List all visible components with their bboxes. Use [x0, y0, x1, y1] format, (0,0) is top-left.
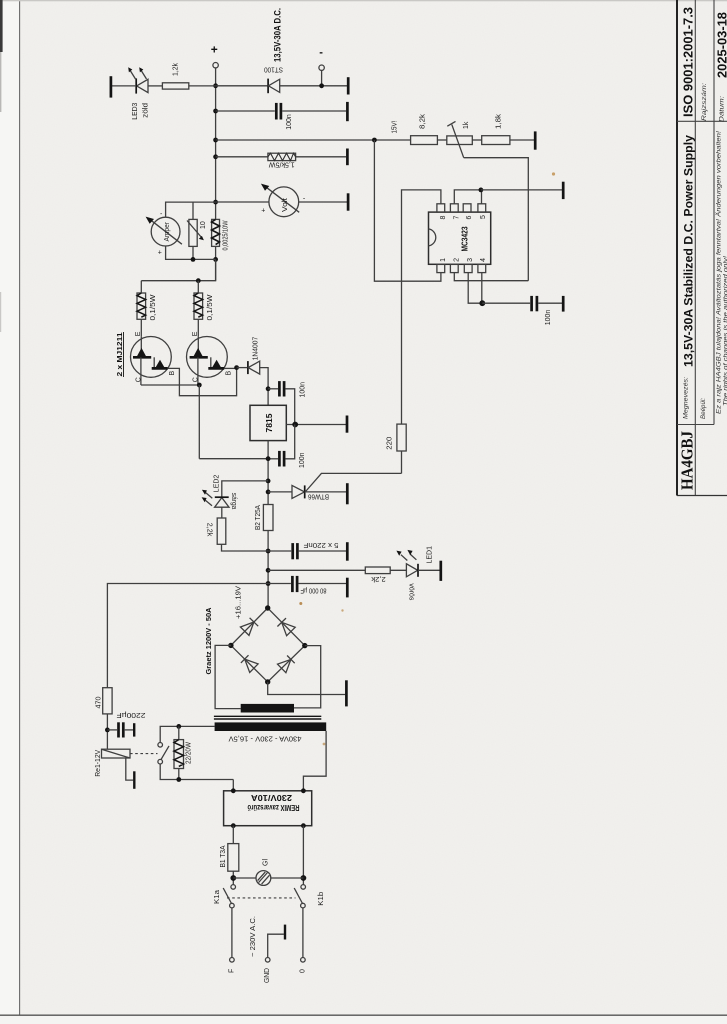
wire contact bottom	[160, 764, 233, 780]
resistor 1,8k	[482, 136, 510, 145]
svg-text:Amper: Amper	[164, 221, 171, 241]
terminal bar 1,8k	[534, 131, 537, 149]
node 80000u branch	[266, 581, 271, 586]
svg-text:Volt: Volt	[282, 198, 289, 212]
wire primary right to REMIX	[303, 731, 326, 791]
svg-text:zöld: zöld	[142, 103, 149, 118]
node on rail at meter bottom	[213, 257, 218, 262]
svg-text:230V/10A: 230V/10A	[251, 793, 292, 802]
capacitor 100n (7815 in)	[268, 388, 278, 390]
svg-text:8: 8	[440, 216, 447, 220]
title block inner vertical 1	[694, 0, 696, 496]
svg-text:1,5k/5W: 1,5k/5W	[268, 160, 294, 167]
wire primary left to soft-start	[179, 725, 215, 727]
wire rheostat top	[192, 202, 194, 219]
wire node to cap	[268, 583, 291, 585]
svg-text:2,2k: 2,2k	[371, 575, 386, 582]
wire cap to bar	[282, 110, 346, 112]
LED1 diode	[406, 564, 417, 577]
wire bridge bottom to 0V bar	[268, 682, 346, 695]
title block separator row1	[677, 120, 727, 122]
svg-text:K1b: K1b	[318, 892, 325, 906]
terminal bar 100n	[346, 102, 349, 121]
wire cap to bar	[298, 583, 346, 585]
terminal bar 7815 out	[346, 416, 349, 433]
svg-text:Graetz 1200V - 50A: Graetz 1200V - 50A	[204, 607, 213, 675]
terminal F	[230, 958, 235, 963]
wire bridge right to secondary	[294, 646, 321, 708]
terminal 0	[301, 958, 306, 963]
transformer core	[214, 715, 321, 717]
node 22/20W bottom	[176, 777, 181, 782]
wire rail to voltmeter	[216, 201, 269, 203]
svg-text:K1a: K1a	[214, 890, 221, 904]
node bridge bottom	[265, 679, 270, 684]
pin 1	[437, 264, 445, 272]
node bridge right	[302, 643, 307, 648]
wire pin7 up	[454, 190, 481, 204]
svg-text:HA4GBJ: HA4GBJ	[678, 431, 697, 490]
svg-text:5: 5	[480, 215, 487, 219]
potentiometer 1k	[447, 136, 473, 145]
bridge diode bottom-right	[278, 659, 291, 672]
voltmeter V1	[269, 187, 299, 217]
svg-text:vörös: vörös	[407, 583, 414, 600]
LED3 diode	[137, 79, 148, 92]
node soft-start top	[176, 724, 181, 729]
wire node to 100n	[482, 302, 530, 304]
bridge diode top-right	[282, 622, 296, 635]
node BTW66 branch	[266, 490, 271, 495]
terminal bar LED3	[110, 76, 113, 97]
wire rail to emitter resistors	[141, 259, 215, 280]
scan top edge	[0, 0, 727, 1]
wire 7815 gnd down	[267, 441, 269, 505]
title block left border	[676, 0, 678, 496]
relay coil Re1-12V	[102, 749, 131, 758]
svg-text:Beépül:: Beépül:	[700, 398, 707, 419]
node on rail at 100n branch	[213, 109, 218, 114]
pin 5	[478, 204, 486, 212]
svg-text:~ 230V A.C.: ~ 230V A.C.	[250, 916, 257, 957]
svg-text:+16...19V: +16...19V	[235, 586, 242, 619]
wire pin5 up	[481, 190, 483, 204]
svg-text:470: 470	[95, 696, 102, 708]
wire BTW66 gate	[305, 473, 402, 492]
resistor 2,2k (LED2)	[217, 518, 226, 544]
svg-text:B1 T3A: B1 T3A	[220, 845, 227, 867]
svg-text:GND: GND	[264, 968, 271, 983]
capacitor 5 x 220nF	[291, 543, 294, 559]
regulator 7815	[250, 405, 286, 440]
svg-text:100n: 100n	[545, 310, 552, 326]
svg-text:0: 0	[300, 969, 307, 973]
wire BTW66 cathode to bar	[305, 491, 346, 493]
svg-text:13,5V-30A D.C.: 13,5V-30A D.C.	[273, 8, 283, 62]
wire rail to ST100	[216, 85, 269, 87]
switch K1b	[301, 885, 306, 890]
wire main plus rail below shunt	[215, 246, 217, 280]
resistor 1,5k/5W	[268, 153, 296, 160]
wire node to BTW66	[268, 491, 292, 493]
svg-text:C: C	[193, 377, 200, 382]
wire pin8 to 220 riser	[402, 190, 441, 424]
svg-text:0,1/5W: 0,1/5W	[207, 294, 214, 320]
pin 6	[463, 204, 471, 212]
capacitor 80 000 uF	[291, 576, 294, 592]
LED3 arrows	[130, 71, 135, 80]
wire plus terminal down	[215, 68, 217, 86]
wire GND to chassis	[268, 934, 284, 957]
svg-text:2200µF: 2200µF	[117, 711, 146, 718]
wire node to bar	[481, 189, 562, 191]
terminal bar 0V	[345, 680, 348, 706]
wire node to cap	[268, 550, 291, 552]
wire 2,2k to main line	[222, 544, 269, 551]
svg-text:Ez a rajz HA4GBJ tulajdona! Av: Ez a rajz HA4GBJ tulajdona! Aváltoztatás…	[716, 131, 723, 414]
node pin3/4	[479, 300, 485, 306]
node REMIX top-right	[301, 788, 306, 793]
svg-text:ISO 9001:2001-7.3: ISO 9001:2001-7.3	[681, 7, 696, 117]
wire collectors down	[198, 385, 200, 459]
wire LED3 to end bar	[111, 85, 136, 87]
wire fuse to bridge	[267, 531, 269, 609]
wire rail to 1,5k	[216, 156, 268, 158]
IC MC3423 body	[429, 212, 491, 264]
wire contact top	[160, 726, 179, 742]
wire collector line to main node	[199, 458, 268, 460]
wire fuse to node	[232, 871, 234, 884]
svg-text:1: 1	[440, 258, 447, 262]
svg-text:E: E	[192, 331, 199, 336]
LED1 arrows	[401, 555, 407, 561]
title block separator row2	[677, 424, 714, 426]
svg-text:C: C	[136, 377, 143, 382]
svg-text:LED1: LED1	[427, 546, 434, 564]
terminal GND	[265, 958, 270, 963]
svg-text:Megnevezés:: Megnevezés:	[683, 377, 690, 419]
wire K1b to terminal 0	[302, 908, 304, 958]
resistor 470	[103, 688, 112, 714]
node LED1 branch	[266, 568, 271, 573]
ammeter A1	[151, 217, 180, 246]
svg-text:8,2k: 8,2k	[420, 113, 427, 129]
wire cap to bar	[299, 550, 346, 552]
LED2 diode	[215, 498, 229, 508]
svg-text:4: 4	[480, 258, 487, 262]
bridge diode bottom-left	[245, 659, 258, 672]
svg-text:0,0025/10W: 0,0025/10W	[223, 220, 230, 250]
node 7815 out	[292, 422, 298, 428]
wire LED2 to 2,2k	[221, 507, 223, 518]
wire 8,2k to 1k	[437, 139, 446, 141]
node 2200u	[105, 728, 110, 733]
bridge diamond	[231, 608, 305, 682]
svg-text:REMIX zavarszürö: REMIX zavarszürö	[247, 803, 299, 812]
wire meter bottom	[166, 246, 216, 260]
wire loop left (pin1 feedback)	[374, 140, 441, 281]
pin 3	[464, 264, 472, 272]
resistor 1,2k	[162, 83, 188, 89]
svg-text:2: 2	[453, 258, 460, 262]
node REMIX bottom-right	[301, 823, 306, 828]
wire 100n to bar	[538, 302, 562, 304]
pin 7	[450, 204, 458, 212]
diode ST100	[267, 79, 269, 94]
wire REMIX to fuse	[232, 826, 234, 844]
svg-text:100n: 100n	[300, 382, 307, 398]
svg-text:2 x MJ1211: 2 x MJ1211	[115, 333, 124, 377]
wire down to REMIX	[232, 780, 234, 791]
diode 1N4007	[247, 361, 249, 374]
wire minus terminal down	[321, 70, 323, 85]
svg-text:430VA - 230V - 16,5V: 430VA - 230V - 16,5V	[228, 735, 301, 742]
minus terminal	[319, 65, 324, 70]
fuse B1 T3A	[228, 844, 239, 872]
svg-text:B: B	[169, 371, 176, 376]
relay contact	[158, 743, 163, 748]
svg-text:1k: 1k	[463, 121, 470, 129]
svg-text:F: F	[228, 969, 235, 973]
wire voltmeter to bar	[299, 201, 347, 203]
title block inner vertical 2	[713, 0, 715, 425]
svg-text:100n: 100n	[286, 114, 293, 130]
shunt resistor 0,0025/10W	[212, 219, 220, 246]
svg-text:220: 220	[387, 437, 394, 450]
svg-text:13,5V-30A Stabilized D.C. Powe: 13,5V-30A Stabilized D.C. Power Supply	[682, 135, 696, 367]
transistor Q1	[131, 337, 172, 378]
svg-text:Dátum:: Dátum:	[719, 96, 726, 122]
paper specks	[552, 172, 555, 175]
terminal bar LED1	[439, 561, 442, 581]
wire ST100 to minus node	[280, 85, 347, 87]
wire resistor to LED3	[148, 85, 162, 87]
terminal bar 2200u	[133, 723, 135, 736]
chassis bar GND	[284, 925, 286, 940]
svg-text:1N4007: 1N4007	[253, 337, 260, 361]
switch K1a	[231, 885, 236, 890]
wire node to diode	[237, 367, 248, 369]
wire K1a to terminal F	[231, 908, 233, 958]
svg-text:15V!: 15V!	[392, 120, 399, 133]
resistor 2,2k (LED1)	[365, 567, 390, 574]
pin 4	[478, 264, 486, 272]
svg-text:B: B	[226, 371, 233, 376]
svg-text:10: 10	[200, 221, 207, 229]
node 100n top cap	[266, 386, 271, 391]
node collector junction	[197, 383, 202, 388]
svg-text:5 x 220nF: 5 x 220nF	[304, 541, 339, 548]
title block bottom border	[677, 495, 727, 497]
svg-text:7: 7	[453, 216, 460, 220]
node REMIX bottom-left	[231, 823, 236, 828]
wire meter top	[166, 202, 216, 217]
svg-text:100n: 100n	[299, 452, 306, 468]
node REMIX top-left	[231, 788, 236, 793]
svg-text:3: 3	[467, 258, 474, 262]
wire rail to 8,2k	[216, 139, 411, 141]
node LED2 branch	[266, 479, 271, 484]
terminal bar minus branch	[347, 77, 350, 94]
wire to resistor 1,2k	[189, 85, 216, 87]
node 5x220n branch	[266, 549, 271, 554]
node mains right	[301, 875, 307, 881]
resistor 8,2k	[411, 136, 438, 145]
wire rheostat bottom	[192, 246, 194, 259]
wire 1,8k to bar	[510, 139, 534, 141]
wire pot wiper to pin2 riser	[464, 158, 529, 281]
terminal bar pin5/7	[562, 182, 565, 199]
svg-text:0,1/5W: 0,1/5W	[150, 294, 157, 320]
scan edge marks top-left	[0, 0, 3, 52]
wire 1,5k to bar	[296, 156, 346, 158]
page bottom border line	[0, 1014, 727, 1016]
wire pin4 down	[481, 273, 483, 304]
node base bus	[234, 365, 239, 370]
transistor Q2	[187, 337, 228, 378]
svg-text:sárga: sárga	[230, 493, 237, 510]
wire 2,2k to LED1	[390, 569, 406, 571]
wire node to LED2	[222, 481, 268, 497]
node on rail at 15V branch	[213, 138, 218, 143]
pin 8	[437, 204, 445, 212]
terminal bar 5x220n	[346, 542, 349, 561]
bridge diode top-left	[240, 622, 254, 635]
wire 7815 out to bar	[286, 424, 346, 426]
node on rail at ST100 branch	[213, 83, 218, 88]
node mains left	[230, 875, 236, 881]
svg-text:MC3423: MC3423	[461, 226, 470, 251]
svg-text:80 000 µF: 80 000 µF	[301, 586, 327, 593]
wire long aux feed	[107, 584, 268, 688]
wire relay to chassis	[126, 758, 133, 780]
wire 220 to gate wire	[401, 451, 403, 473]
resistor 0,1/5W (T2)	[197, 281, 199, 293]
svg-text:2025-03-18: 2025-03-18	[716, 12, 727, 78]
node pin5/7	[479, 188, 484, 193]
capacitor 100n (MC3423)	[530, 296, 533, 311]
svg-text:6: 6	[466, 216, 473, 220]
glow lamp Gl	[233, 877, 256, 879]
wire bridge left to secondary	[215, 645, 241, 708]
terminal bar BTW66	[346, 483, 349, 504]
wire rail to cap	[216, 110, 275, 112]
svg-text:ST100: ST100	[264, 66, 283, 73]
wire diode to 7815	[260, 368, 268, 406]
terminal bar 80000u	[346, 578, 349, 598]
resistor 0,1/5W (T1)	[140, 281, 142, 293]
node 15V wire	[372, 138, 377, 143]
capacitor 100n	[275, 103, 278, 120]
wire Q1 base path	[168, 368, 237, 396]
wire 1k to 1,8k	[472, 139, 481, 141]
wire pin2 to pot riser	[454, 273, 528, 281]
svg-text:Rajzszám:: Rajzszám:	[701, 83, 708, 121]
wire Q2 base to node	[224, 367, 236, 369]
svg-text:Re1-12V: Re1-12V	[95, 749, 102, 776]
wire 470 to relay	[106, 714, 108, 749]
node rheostat bottom	[191, 257, 196, 262]
rheostat 10	[189, 219, 197, 246]
node emitter bus	[196, 278, 201, 283]
wire pin3 down	[468, 273, 482, 304]
svg-text:+: +	[261, 208, 265, 215]
svg-text:22/20W: 22/20W	[186, 742, 193, 764]
wire LED1 to bar	[418, 569, 440, 571]
node main line 7815 gnd	[266, 456, 271, 461]
svg-text:+: +	[211, 43, 218, 57]
fuse B2 T25A	[263, 505, 273, 531]
node minus junction	[319, 83, 324, 88]
transformer primary winding	[215, 722, 327, 731]
capacitor 100n (7815 gnd)	[268, 458, 278, 460]
svg-text:Gl: Gl	[263, 859, 270, 866]
wire node to 2,2k	[268, 569, 365, 571]
resistor 22/20W	[178, 726, 180, 739]
svg-text:LED3: LED3	[132, 103, 139, 120]
svg-text:B2 T25A: B2 T25A	[255, 505, 262, 530]
chassis bar relay	[133, 771, 135, 789]
node bridge top	[265, 605, 270, 610]
plus terminal	[213, 62, 218, 67]
svg-text:LED2: LED2	[214, 475, 221, 493]
svg-text:-: -	[319, 47, 323, 59]
thyristor BTW66	[292, 485, 305, 498]
svg-text:BTW66: BTW66	[308, 493, 329, 500]
REMIX filter box	[224, 791, 312, 826]
page left border line	[19, 0, 21, 1015]
node on rail at 1,5k branch	[213, 154, 218, 159]
node on rail at meter branch	[213, 200, 218, 205]
wire collector bus	[141, 384, 199, 386]
svg-text:+: +	[158, 250, 162, 257]
transformer secondary winding	[241, 704, 294, 713]
LED2 arrows	[206, 493, 213, 498]
pin 2	[450, 264, 458, 272]
svg-text:2,2k: 2,2k	[206, 523, 213, 537]
svg-text:7815: 7815	[265, 413, 274, 433]
dashed link K1a K1b	[227, 897, 296, 899]
svg-text:E: E	[135, 331, 142, 336]
node bridge left	[228, 643, 233, 648]
wire REMIX right down	[302, 826, 304, 885]
svg-text:1,2k: 1,2k	[173, 63, 180, 76]
svg-text:The rights of changes is the a: The rights of changes is the authorized …	[723, 256, 727, 406]
terminal bar 100n MC3423	[562, 296, 565, 312]
capacitor 2200uF	[107, 729, 117, 731]
wire main plus rail	[215, 83, 217, 220]
resistor 220	[397, 424, 406, 451]
svg-text:1,8k: 1,8k	[496, 113, 503, 129]
terminal bar voltmeter	[347, 193, 350, 210]
dashed link relay to contact	[130, 753, 158, 755]
terminal bar 1,5k	[346, 149, 349, 166]
